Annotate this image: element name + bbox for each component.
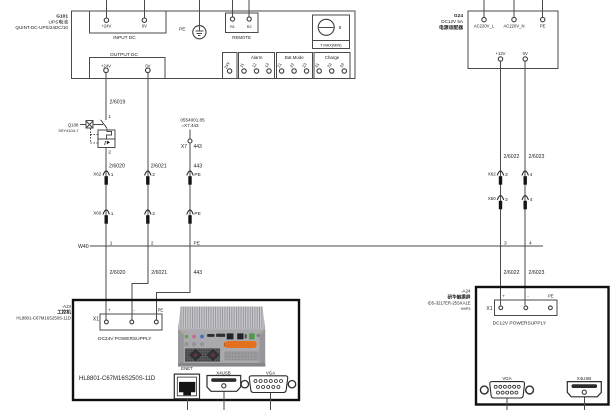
svg-text:-A24: -A24 [461, 289, 471, 294]
svg-text:2/6023: 2/6023 [529, 154, 545, 160]
connector X62 pin 3 [488, 171, 508, 185]
svg-text:2: 2 [152, 172, 155, 178]
svg-text:DC12V 5A: DC12V 5A [441, 19, 464, 24]
connector X7 pin 443 [180, 117, 205, 150]
T MAX dial box [312, 15, 349, 48]
wire 3 from G24 +12V down to A24 X1 plus [501, 61, 520, 305]
svg-text:X60: X60 [488, 196, 497, 201]
svg-text:X7: X7 [181, 144, 187, 150]
svg-text:R2: R2 [247, 25, 252, 29]
UPS G101 device labels [15, 14, 68, 31]
Bat.Mode terminal box [276, 53, 312, 79]
svg-text:X4USB: X4USB [577, 376, 591, 381]
svg-text:INPUT DC: INPUT DC [113, 35, 136, 41]
ethernet port ENET [174, 366, 199, 410]
connector X62 pin 4 [522, 171, 533, 185]
svg-text:W40: W40 [78, 244, 89, 250]
wire 1 from Q108 down to A23 X1 plus [106, 147, 125, 319]
svg-text:2: 2 [152, 211, 155, 217]
svg-text:X1: X1 [93, 317, 99, 323]
svg-text:X62: X62 [93, 172, 102, 177]
connector X62 pin 2 [145, 171, 156, 185]
A23 device type label [79, 376, 156, 382]
wire AC220V_N up [513, 0, 515, 17]
photo of industrial PC [178, 307, 265, 367]
svg-text:+12V: +12V [496, 51, 506, 56]
svg-text:G101: G101 [56, 14, 68, 20]
wire 4 from G24 0V down to A24 X1 minus [525, 61, 544, 305]
svg-text:QUINT-DC-UPS/24DC/10: QUINT-DC-UPS/24DC/10 [15, 25, 68, 30]
UPS G101 outer box [72, 11, 356, 79]
svg-text:DC12V POWERSUPPLY: DC12V POWERSUPPLY [493, 320, 547, 326]
terminal R2 [247, 17, 252, 29]
wire PE up [198, 0, 200, 26]
svg-text:443: 443 [194, 144, 203, 150]
svg-text:=X7.443: =X7.443 [181, 123, 199, 128]
wire R1 up [232, 0, 234, 17]
svg-text:1: 1 [111, 172, 114, 178]
Charge terminal box [314, 53, 350, 79]
svg-text:X62: X62 [488, 172, 497, 177]
svg-text:443: 443 [194, 270, 203, 276]
svg-text:AC220V_N: AC220V_N [504, 23, 525, 28]
svg-text:3: 3 [504, 240, 507, 246]
svg-text:PE: PE [179, 26, 185, 32]
wire R2 up [248, 0, 250, 17]
svg-text:0V: 0V [142, 24, 147, 29]
svg-text:+MP3: +MP3 [460, 306, 471, 311]
wire input 0V up [143, 0, 145, 18]
terminal +12V [496, 51, 506, 61]
connector X60 pin 1 [93, 210, 114, 224]
usb port X4USB of A23 [207, 370, 241, 410]
svg-text:电源适配器: 电源适配器 [439, 24, 463, 31]
svg-text:2/6021: 2/6021 [151, 270, 167, 276]
svg-text:2/6023: 2/6023 [529, 270, 545, 276]
terminal strip X1 of A23 [93, 307, 164, 342]
svg-text:R1: R1 [230, 25, 235, 29]
svg-text:PE: PE [194, 240, 200, 246]
connector X62 pin PE [187, 171, 201, 185]
vga port of A24 [480, 376, 533, 410]
svg-text:PE: PE [540, 23, 546, 28]
wire AC220V_L up [483, 0, 485, 17]
OUTPUT DC section box [89, 52, 165, 79]
svg-text:2/6022: 2/6022 [504, 154, 520, 160]
svg-text:4: 4 [530, 172, 533, 178]
terminal strip X1 of A24 [486, 293, 557, 326]
bus W40 [78, 240, 543, 250]
terminal AC220V_N [504, 17, 525, 28]
svg-text:443: 443 [194, 163, 203, 169]
wire G24 PE up [542, 0, 544, 17]
svg-text:Alarm: Alarm [251, 55, 263, 60]
connector X60 pin 3 [488, 196, 508, 210]
wire 443 PE from X7 down to A23 X1 PE [156, 143, 202, 320]
breaker Q108 [58, 120, 115, 156]
svg-text:DC24V POWERSUPPLY: DC24V POWERSUPPLY [98, 336, 152, 342]
svg-text:X1: X1 [486, 306, 492, 312]
svg-text:PE: PE [194, 211, 200, 217]
connector X62 pin 1 [93, 171, 114, 185]
terminal +24V output [101, 63, 111, 72]
svg-text:研华触摸屏: 研华触摸屏 [448, 293, 471, 300]
svg-text:HL8801-C67M16S250S-11D: HL8801-C67M16S250S-11D [79, 376, 156, 382]
power adapter G24 labels [439, 13, 464, 31]
svg-text:AC220V_L: AC220V_L [474, 23, 495, 28]
svg-text:Bat.Mode: Bat.Mode [285, 55, 304, 60]
industrial PC A23 box [73, 300, 299, 400]
terminal R1 [230, 17, 235, 29]
svg-text:ENET: ENET [181, 366, 193, 371]
svg-text:PE: PE [158, 307, 164, 312]
svg-text:0554001.85: 0554001.85 [180, 117, 205, 122]
svg-text:-A23: -A23 [62, 304, 72, 309]
wire 2 from UPS output 0V down to A23 X1 minus [132, 73, 167, 320]
svg-text:2/6020: 2/6020 [109, 163, 125, 169]
svg-text:2: 2 [108, 149, 111, 155]
svg-text:2/6020: 2/6020 [110, 270, 126, 276]
industrial PC A23 labels [16, 304, 71, 320]
svg-text:1: 1 [108, 114, 111, 120]
wire input +24V up [105, 0, 107, 18]
svg-text:VGA: VGA [502, 376, 511, 381]
svg-text:1: 1 [110, 240, 113, 246]
ground PE symbol [179, 26, 206, 39]
usb port X4USB of A24 [567, 376, 601, 410]
terminal 0V input [142, 18, 147, 29]
power adapter G24 box [468, 11, 558, 69]
connector X60 pin PE [187, 210, 201, 224]
svg-text:VGA: VGA [266, 370, 275, 375]
svg-text:0V: 0V [523, 51, 528, 56]
touch panel A24 box [476, 287, 609, 405]
svg-text:2: 2 [151, 240, 154, 246]
terminal G24 PE [540, 17, 546, 28]
svg-text:3: 3 [505, 197, 508, 203]
connector X60 pin 4 [522, 196, 533, 210]
24V aux terminal box [222, 53, 237, 79]
terminal AC220V_L [474, 17, 495, 28]
Alarm terminal box [238, 53, 274, 79]
vga port of A23 [241, 370, 296, 410]
svg-text:工控机: 工控机 [57, 309, 71, 316]
svg-text:+: + [108, 307, 111, 312]
svg-text:1: 1 [111, 211, 114, 217]
touch panel A24 labels [427, 289, 471, 311]
svg-text:IDS-3217ER-25SXA1E: IDS-3217ER-25SXA1E [427, 300, 470, 305]
terminal +24V input [101, 18, 111, 29]
svg-text:3: 3 [505, 172, 508, 178]
connector X60 pin 2 [145, 210, 156, 224]
svg-text:PE: PE [548, 293, 554, 298]
svg-text:2/6021: 2/6021 [151, 163, 167, 169]
svg-text:4: 4 [529, 240, 532, 246]
svg-text:+: + [502, 293, 505, 298]
wire 2/6019 segment from UPS output +24V to Q108 [106, 73, 125, 120]
svg-text:REMOTE: REMOTE [232, 35, 251, 40]
svg-text:HL8801-C67M16S250S-11D: HL8801-C67M16S250S-11D [16, 316, 71, 321]
svg-text:PE: PE [194, 172, 200, 178]
svg-text:X60: X60 [93, 211, 102, 216]
svg-text:T MAX(MIN): T MAX(MIN) [320, 43, 342, 48]
svg-text:5: 5 [339, 25, 342, 30]
svg-text:Charge: Charge [325, 55, 340, 60]
svg-text:5SY4104-7: 5SY4104-7 [58, 128, 79, 133]
svg-text:2/6022: 2/6022 [504, 270, 520, 276]
terminal 0V output [145, 63, 150, 72]
svg-text:X4USB: X4USB [216, 370, 230, 375]
INPUT DC section box [89, 11, 166, 41]
REMOTE section box [226, 13, 259, 40]
terminal G24 0V [523, 51, 528, 61]
svg-text:4: 4 [530, 197, 533, 203]
svg-text:+24V: +24V [101, 24, 111, 29]
svg-text:2/6019: 2/6019 [110, 100, 126, 106]
